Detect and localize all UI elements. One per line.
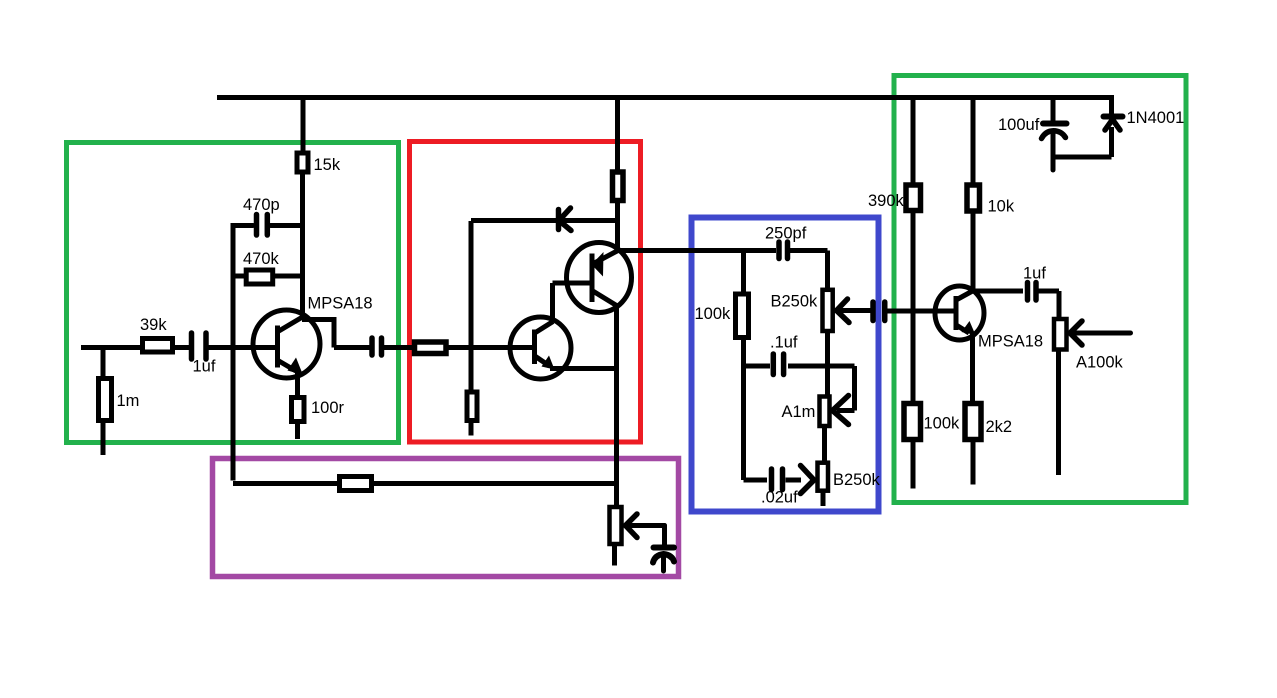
resistor R red stage upper: [613, 172, 624, 201]
svg-text:2k2: 2k2: [986, 418, 1013, 436]
wire: input line: [81, 345, 141, 350]
wire: blue left vertical: [741, 338, 746, 481]
capacitor C 250pf: [779, 242, 788, 259]
capacitor C feedback (polarized): [653, 548, 674, 572]
svg-text:1uf: 1uf: [1023, 265, 1046, 283]
wire: feedback bus vertical (base node down to purple box): [231, 223, 236, 481]
wire: 10k to Q4 collector node: [971, 213, 976, 292]
wire: red input resistor to Q2 base: [448, 345, 533, 350]
wire: red resistor to Q3 emitter node: [615, 202, 620, 253]
svg-text:.02uf: .02uf: [761, 489, 798, 507]
wire: Q4 emitter to 2k2: [970, 333, 975, 402]
wire: .02uf to B250k lower wiper: [786, 478, 802, 483]
wire: rail drop to 100uf: [1051, 98, 1056, 122]
wire: 100k right lower stub: [911, 441, 916, 489]
transistor Q1 emitter arrow: [288, 358, 304, 376]
wire: 100r lower stub: [295, 422, 300, 439]
transistor Q4 emitter arrow: [962, 321, 976, 335]
wire: feedback pot bottom lead: [612, 544, 617, 566]
svg-text:100uf: 100uf: [998, 116, 1040, 134]
section box: feedback network (purple): [213, 459, 679, 577]
capacitor C .02uf: [772, 469, 783, 490]
svg-text:39k: 39k: [140, 316, 167, 334]
transistor Q1 MPSA18: [253, 310, 320, 378]
potentiometer A100k wiper arrow: [1070, 321, 1131, 345]
diode D1: [559, 208, 572, 231]
wire: output cap into red stage: [384, 345, 412, 350]
svg-text:470k: 470k: [243, 250, 280, 268]
svg-text:MPSA18: MPSA18: [308, 295, 373, 313]
wire: 15k to collector node: [300, 173, 305, 320]
svg-text:100k: 100k: [695, 305, 732, 323]
resistor R 39k: [143, 339, 173, 353]
resistor R feedback: [340, 477, 372, 491]
wire: feedback horizontal (purple box): [233, 481, 616, 486]
resistor R 1m: [99, 379, 112, 421]
resistor R1 15k: [297, 153, 308, 172]
section box: tone stack (blue): [692, 218, 879, 512]
resistor R 470k: [233, 270, 303, 284]
svg-text:10k: 10k: [988, 198, 1015, 216]
wire: 250pf to B250k top: [790, 251, 828, 290]
section box: output stage (green): [894, 76, 1186, 503]
wire: .1uf branch: [744, 364, 771, 369]
potentiometer B250k (lower): [818, 463, 829, 491]
diode D 1N4001: [1104, 117, 1123, 131]
svg-text:MPSA18: MPSA18: [978, 333, 1043, 351]
wire: Q2 emitter to main vertical: [550, 366, 618, 371]
resistor R 2k2: [965, 404, 981, 440]
wire: 2k2 lower stub: [971, 441, 976, 485]
capacitor C 1uf input: [192, 333, 207, 359]
wire: A100k bottom lead: [1056, 351, 1061, 475]
potentiometer B250k wiper arrow: [836, 299, 871, 323]
svg-text:1m: 1m: [117, 392, 140, 410]
capacitor C output (left stage): [372, 338, 382, 355]
capacitor C .1uf: [773, 354, 783, 375]
wire: Q2 collector to Q3 base: [553, 283, 591, 322]
svg-text:250pf: 250pf: [765, 225, 807, 243]
svg-text:B250k: B250k: [771, 293, 819, 311]
svg-text:.1uf: .1uf: [770, 334, 798, 352]
potentiometer A100k: [1054, 319, 1067, 350]
capacitor C 470p: [233, 215, 303, 236]
transistor Q3 emitter arrow (PNP): [592, 252, 604, 277]
wire: A1m to B250k lower: [822, 424, 827, 462]
potentiometer A1m wiper arrow: [833, 396, 849, 425]
wire: 1m lower stub: [101, 421, 106, 455]
svg-text:470p: 470p: [243, 196, 280, 214]
wire: 100uf to 1N4001 bottom: [1053, 127, 1112, 157]
svg-text:A100k: A100k: [1076, 354, 1124, 372]
potentiometer feedback wiper arrow: [626, 514, 665, 545]
capacitor C (blue box edge): [873, 302, 885, 321]
wire: rail drop to 390k: [911, 98, 916, 185]
resistor R 100r: [292, 398, 305, 422]
wire: Q1 collector tap to output: [302, 317, 370, 348]
transistor Q4 MPSA18: [935, 286, 984, 340]
svg-text:B250k: B250k: [833, 471, 881, 489]
wire: 1uf to Q1 base: [209, 345, 277, 350]
potentiometer B250k lower wiper arrow: [801, 466, 815, 494]
svg-text:100r: 100r: [311, 399, 345, 417]
transistor Q2 emitter arrow: [542, 356, 555, 370]
potentiometer A1m: [820, 397, 830, 427]
wire: rail drop to 10k: [971, 98, 976, 185]
svg-text:1N4001: 1N4001: [1127, 109, 1185, 127]
wire: 1uf to A100k top: [1039, 291, 1060, 318]
wire: Q1 emitter to 100r: [295, 370, 300, 396]
wire: red lower resistor stub: [469, 422, 474, 436]
wire: 390k to 100k (right): [911, 212, 916, 402]
wire: diode feed line: [471, 218, 618, 223]
wire: B250k to A1m: [825, 331, 830, 396]
svg-text:1uf: 1uf: [193, 358, 216, 376]
resistor R input of red stage: [415, 342, 447, 354]
resistor R 10k: [967, 185, 980, 211]
svg-text:A1m: A1m: [782, 403, 816, 421]
wire: .1uf to A1m wiper: [788, 366, 855, 411]
wire: rail drop to R 15k: [301, 98, 306, 153]
section box: input stage (green): [67, 143, 399, 443]
potentiometer feedback pot: [610, 507, 622, 544]
transistor Q3 (upper, PNP): [567, 243, 632, 313]
wire: edge cap to Q4 base: [887, 309, 955, 314]
wire: rail end drop to 1N4001: [1109, 95, 1114, 114]
wire: drop to 1m: [101, 348, 106, 378]
wire: red stage output to blue box: [618, 248, 777, 253]
potentiometer B250k (upper): [823, 290, 833, 331]
resistor R red stage lower: [467, 392, 477, 421]
wire: Q3 collector down to purple pot: [614, 305, 619, 506]
wire: V+ supply rail: [217, 95, 1114, 100]
svg-text:390k: 390k: [868, 192, 905, 210]
wire: red stage left vertical: [469, 221, 474, 391]
capacitor C 100uf: [1042, 124, 1067, 171]
capacitor C 1uf (right): [1028, 283, 1037, 301]
wire: B250k lower bottom stub: [821, 492, 826, 506]
resistor R 100k (right): [904, 404, 921, 440]
svg-text:100k: 100k: [924, 415, 961, 433]
section box: gain stage (red): [410, 142, 641, 443]
wire: drop to 100k (blue): [741, 251, 746, 294]
wire: rail drop to red stage resistor: [615, 98, 620, 172]
svg-text:15k: 15k: [314, 156, 341, 174]
resistor R 390k: [906, 185, 921, 211]
wire: Q4 collector node to 1uf: [973, 289, 1023, 294]
transistor Q2 (lower, NPN): [510, 317, 571, 379]
resistor R 100k (blue): [736, 294, 749, 338]
wire: .02uf branch: [744, 478, 768, 483]
wire: 39k to C 1uf: [174, 345, 189, 350]
